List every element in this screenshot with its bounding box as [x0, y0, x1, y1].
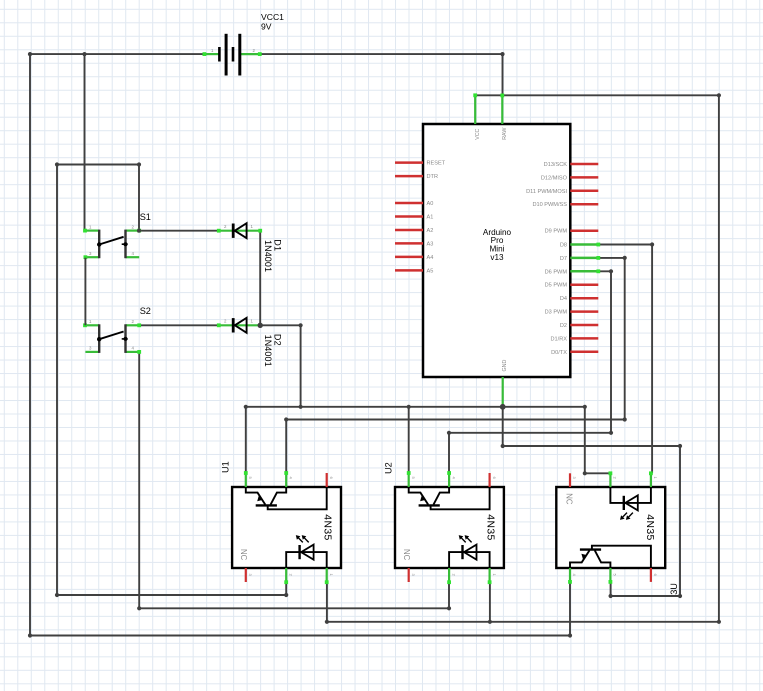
- label D3 PWM: [545, 310, 568, 316]
- label D7: [560, 256, 567, 262]
- wire D6 to U2 pin4 top: [449, 271, 611, 473]
- bendpoints S1 net: [55, 162, 288, 597]
- wire U1 pin2 bottom lead: [285, 582, 287, 595]
- wire U3 pin4 bottom lead: [569, 582, 571, 636]
- label 4N35 (U1): [321, 514, 332, 540]
- svg-text:D3 PWM: D3 PWM: [545, 310, 568, 316]
- label D0/TX: [551, 350, 567, 356]
- Arduino pin D10 PWM/SS: [570, 203, 598, 206]
- label D2: [560, 323, 567, 329]
- label RAW: [502, 128, 508, 140]
- battery pin numbers: [211, 48, 256, 53]
- label D1: [273, 239, 283, 251]
- svg-text:U1: U1: [220, 461, 230, 473]
- optocoupler U3 4N35: [556, 471, 665, 583]
- Arduino pin VCC: [473, 93, 477, 124]
- svg-text:4N35: 4N35: [644, 514, 655, 540]
- bendpoint D8 wire: [650, 242, 654, 246]
- bendpoints S2 pin4 wire: [137, 606, 451, 610]
- svg-text:v13: v13: [490, 253, 504, 262]
- optocoupler U2 4N35: [395, 471, 504, 584]
- Arduino pin D9 PWM: [570, 229, 598, 232]
- wire D8 to U3 pin5 top: [598, 245, 652, 474]
- svg-text:4N35: 4N35: [484, 514, 495, 540]
- label A3: [427, 241, 434, 247]
- label D1/RX: [551, 336, 568, 342]
- diode D1 1N4001: [217, 223, 262, 238]
- wire GND bus to U1 pin5 top: [245, 407, 247, 473]
- Arduino pin D11 PWM/MOSI: [570, 190, 598, 193]
- junction D1/D2 node: [258, 323, 303, 328]
- label A4: [427, 255, 434, 261]
- label Arduino Pro Mini v13: [483, 228, 512, 262]
- label D13/SCK: [544, 162, 568, 168]
- svg-text:A5: A5: [427, 268, 434, 274]
- bendpoint battery positive: [500, 52, 504, 56]
- svg-text:DTR: DTR: [427, 174, 439, 180]
- Arduino pin D4: [570, 297, 598, 300]
- svg-text:D1/RX: D1/RX: [551, 336, 568, 342]
- label 4N35 (U2): [484, 514, 495, 540]
- bendpoints D7 wire: [284, 256, 627, 422]
- svg-text:D9 PWM: D9 PWM: [545, 229, 568, 235]
- Arduino pin A0: [395, 202, 423, 205]
- svg-text:D12/MISO: D12/MISO: [541, 175, 568, 181]
- Arduino pin D2: [570, 324, 598, 327]
- label D5 PWM: [545, 283, 568, 289]
- Arduino pin D13/SCK: [570, 163, 598, 166]
- U1 pin numbers: [248, 477, 334, 577]
- svg-text:A2: A2: [427, 228, 434, 234]
- Arduino pin A4: [395, 256, 423, 259]
- Arduino pin DTR: [395, 175, 423, 178]
- wire VCC rail to U1/U2 pin1: [327, 95, 719, 622]
- wire U3 pin1 bottom lead: [610, 582, 612, 596]
- svg-text:S1: S1: [140, 212, 151, 222]
- svg-text:NC: NC: [565, 493, 574, 505]
- label U3: [669, 583, 679, 595]
- Arduino pin A5: [395, 269, 423, 272]
- Arduino pin D0/TX: [570, 351, 598, 354]
- label NC (U3): [565, 493, 574, 505]
- svg-text:U2: U2: [383, 462, 393, 474]
- diode D2 1N4001: [217, 318, 262, 333]
- label RESET: [427, 161, 446, 167]
- svg-text:D2: D2: [560, 323, 567, 329]
- svg-text:1N4001: 1N4001: [263, 240, 273, 272]
- bendpoints GND lower branch: [501, 444, 683, 598]
- S1 pin numbers: [89, 224, 135, 256]
- label 4N35 (U3): [644, 514, 655, 540]
- wire GND to U3 pin1 bottom: [503, 407, 680, 596]
- svg-text:D4: D4: [560, 296, 567, 302]
- Arduino pin RAW: [500, 94, 504, 125]
- label D1 1N4001: [263, 240, 273, 272]
- Arduino pin D5 PWM: [570, 283, 598, 286]
- svg-text:RAW: RAW: [502, 128, 508, 140]
- wire GND bus to U2 pin5 top: [408, 407, 410, 473]
- Arduino Pro Mini U4 body: [423, 124, 570, 377]
- wire S1 pin2 to U1 pin2 bottom: [57, 165, 286, 596]
- Arduino pin A2: [395, 229, 423, 232]
- wire battery negative to S1 pin1: [84, 54, 86, 231]
- svg-text:D7: D7: [560, 256, 567, 262]
- svg-text:RESET: RESET: [427, 161, 446, 167]
- label S2: [140, 306, 151, 316]
- D2 pin numbers: [224, 319, 254, 324]
- svg-text:A0: A0: [427, 201, 434, 207]
- S2 pin numbers: [89, 319, 135, 351]
- Arduino pin D6 PWM: [570, 269, 600, 273]
- label D2: [273, 334, 283, 346]
- svg-text:GND: GND: [502, 360, 508, 372]
- svg-text:A3: A3: [427, 241, 434, 247]
- svg-text:A4: A4: [427, 255, 434, 261]
- svg-text:D6 PWM: D6 PWM: [545, 269, 568, 275]
- wire S1 pin2 to D1: [139, 230, 219, 232]
- label DTR: [427, 174, 439, 180]
- wire U2 pin1 to VCC row: [489, 582, 491, 622]
- wire D7 to U1 pin4 top: [286, 258, 625, 473]
- svg-text:D0/TX: D0/TX: [551, 350, 567, 356]
- wire D1 cathode to D2 junction: [259, 231, 261, 326]
- label D2 1N4001: [263, 335, 273, 367]
- svg-text:D11 PWM/MOSI: D11 PWM/MOSI: [526, 189, 567, 195]
- wire S1 pin3 to S2 pin1: [84, 258, 86, 326]
- pushbutton S1: [83, 229, 141, 259]
- label A2: [427, 228, 434, 234]
- battery VCC1 9V: [203, 34, 262, 76]
- label D11 PWM/MOSI: [526, 189, 567, 195]
- label U2: [383, 462, 393, 474]
- label GND: [502, 360, 508, 372]
- Arduino pin D3 PWM: [570, 310, 598, 313]
- label VCC: [475, 128, 481, 139]
- svg-text:D8: D8: [560, 243, 567, 249]
- svg-text:D1: D1: [273, 239, 283, 251]
- label D8: [560, 243, 567, 249]
- pushbutton S2: [83, 323, 141, 353]
- label D9 PWM: [545, 229, 568, 235]
- svg-text:4N35: 4N35: [321, 514, 332, 540]
- svg-text:NC: NC: [239, 549, 248, 561]
- svg-text:D5 PWM: D5 PWM: [545, 283, 568, 289]
- label 9V: [261, 22, 272, 32]
- label S1: [140, 212, 151, 222]
- svg-text:D2: D2: [273, 334, 283, 346]
- bendpoints D6 wire: [447, 269, 613, 435]
- wire GND bus: [246, 407, 611, 474]
- Arduino pin D12/MISO: [570, 176, 598, 179]
- Arduino pin D8: [570, 243, 600, 247]
- Arduino pin A3: [395, 242, 423, 245]
- wire D2 junction to GND bus: [260, 325, 300, 407]
- label D6 PWM: [545, 269, 568, 275]
- junction battery negative / S1 branch: [28, 52, 572, 638]
- D1 pin numbers: [224, 224, 254, 229]
- wire S2 pin4 to U2 pin2 bottom: [139, 352, 449, 608]
- label NC (U2): [402, 549, 411, 561]
- label A0: [427, 201, 434, 207]
- wire U1 pin1 to VCC row: [326, 582, 328, 622]
- label U1: [220, 461, 230, 473]
- svg-text:VCC: VCC: [475, 128, 481, 139]
- svg-text:9V: 9V: [261, 22, 272, 32]
- Arduino pin RESET: [395, 161, 423, 164]
- svg-text:S2: S2: [140, 306, 151, 316]
- label D10 PWM/SS: [532, 202, 567, 208]
- svg-text:3U: 3U: [669, 583, 679, 595]
- bendpoints VCC rail: [325, 93, 721, 624]
- optocoupler U1 4N35: [232, 471, 341, 584]
- label VCC1: [261, 12, 284, 22]
- label D4: [560, 296, 567, 302]
- U2 pin numbers: [411, 477, 497, 577]
- label NC (U1): [239, 549, 248, 561]
- svg-text:A1: A1: [427, 215, 434, 221]
- svg-text:NC: NC: [402, 549, 411, 561]
- Arduino pin A1: [395, 215, 423, 218]
- junction S1 pin2: [137, 229, 141, 233]
- label A5: [427, 268, 434, 274]
- label A1: [427, 215, 434, 221]
- wire battery negative rail to U3 pin4: [30, 54, 570, 635]
- svg-text:D13/SCK: D13/SCK: [544, 162, 568, 168]
- U3 pin numbers: [572, 477, 658, 577]
- label D12/MISO: [541, 175, 568, 181]
- svg-text:D10 PWM/SS: D10 PWM/SS: [532, 202, 567, 208]
- wire battery positive to RAW: [260, 54, 503, 95]
- svg-text:1N4001: 1N4001: [263, 335, 273, 367]
- Arduino pin D1/RX: [570, 337, 598, 340]
- Arduino pin D7: [570, 256, 600, 260]
- wire S2 pin2 to D2: [139, 324, 219, 326]
- svg-text:VCC1: VCC1: [261, 12, 284, 22]
- junctions GND bus: [244, 404, 587, 476]
- Arduino pin GND: [502, 377, 504, 407]
